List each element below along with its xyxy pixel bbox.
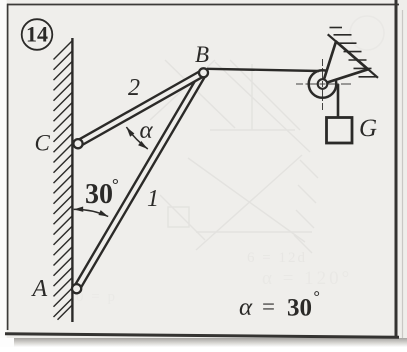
- svg-text:α: α: [239, 294, 253, 321]
- svg-text:C: C: [35, 131, 51, 156]
- svg-text:α = 120°: α = 120°: [262, 268, 352, 289]
- wall hatching: [54, 41, 73, 320]
- frame right border: [395, 0, 398, 339]
- rope B to pulley: [207, 69, 319, 71]
- wall line: [71, 38, 73, 322]
- frame left border: [7, 4, 9, 330]
- frame top border: [7, 4, 399, 6]
- svg-text:A: A: [31, 276, 48, 302]
- svg-text:α: α: [140, 117, 154, 144]
- left page margin: [0, 0, 7, 347]
- weight G box: [327, 118, 353, 144]
- pin A: [72, 284, 81, 293]
- pulley wheel: [309, 70, 337, 98]
- svg-text:2: 2: [128, 75, 140, 101]
- svg-text:14: 14: [26, 22, 48, 47]
- ghost circle top right: [350, 16, 384, 50]
- pin B: [199, 68, 208, 77]
- svg-text:30: 30: [85, 179, 113, 210]
- alpha angle arc at B: [126, 127, 147, 149]
- hub center cross: [320, 81, 326, 87]
- problem number circle 14: [22, 19, 53, 50]
- ghost bleed-through truss lines: [150, 60, 318, 253]
- svg-text:°: °: [112, 175, 119, 194]
- 30 degree angle arc at A: [74, 206, 109, 216]
- svg-text:G: G: [359, 115, 377, 142]
- svg-text:0 = p: 0 = p: [76, 289, 117, 305]
- inclined support line: [328, 34, 378, 78]
- bracket triangle: [323, 42, 369, 85]
- rod 2 (C to B): [76, 70, 205, 146]
- equation alpha = 30deg: [239, 289, 320, 322]
- support hatching: [330, 28, 377, 77]
- frame bottom border: [5, 334, 399, 338]
- svg-text:6 = 12d: 6 = 12d: [247, 250, 307, 266]
- bottom page edge shade: [0, 338, 407, 347]
- pulley centerlines: [296, 59, 351, 110]
- svg-text:30: 30: [287, 295, 312, 322]
- rope pulley to weight: [337, 84, 340, 119]
- svg-text:1: 1: [147, 186, 159, 212]
- pin C: [73, 139, 82, 148]
- pulley hub: [318, 79, 328, 89]
- svg-text:°: °: [314, 289, 320, 306]
- rod 1 (A to B): [74, 71, 206, 290]
- frame outer right faint line: [402, 10, 404, 338]
- svg-text:=: =: [262, 294, 275, 319]
- svg-text:B: B: [195, 42, 209, 67]
